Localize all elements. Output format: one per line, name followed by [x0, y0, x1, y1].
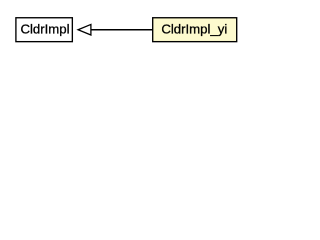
class box CldrImpl	[16, 18, 72, 42]
svg-text:CldrImpl: CldrImpl	[20, 22, 69, 37]
wire inheritance edge	[91, 29, 153, 31]
svg-text:CldrImpl_yi: CldrImpl_yi	[161, 22, 227, 37]
generalization arrowhead (hollow triangle)	[78, 24, 91, 35]
class box CldrImpl_yi	[153, 18, 237, 42]
